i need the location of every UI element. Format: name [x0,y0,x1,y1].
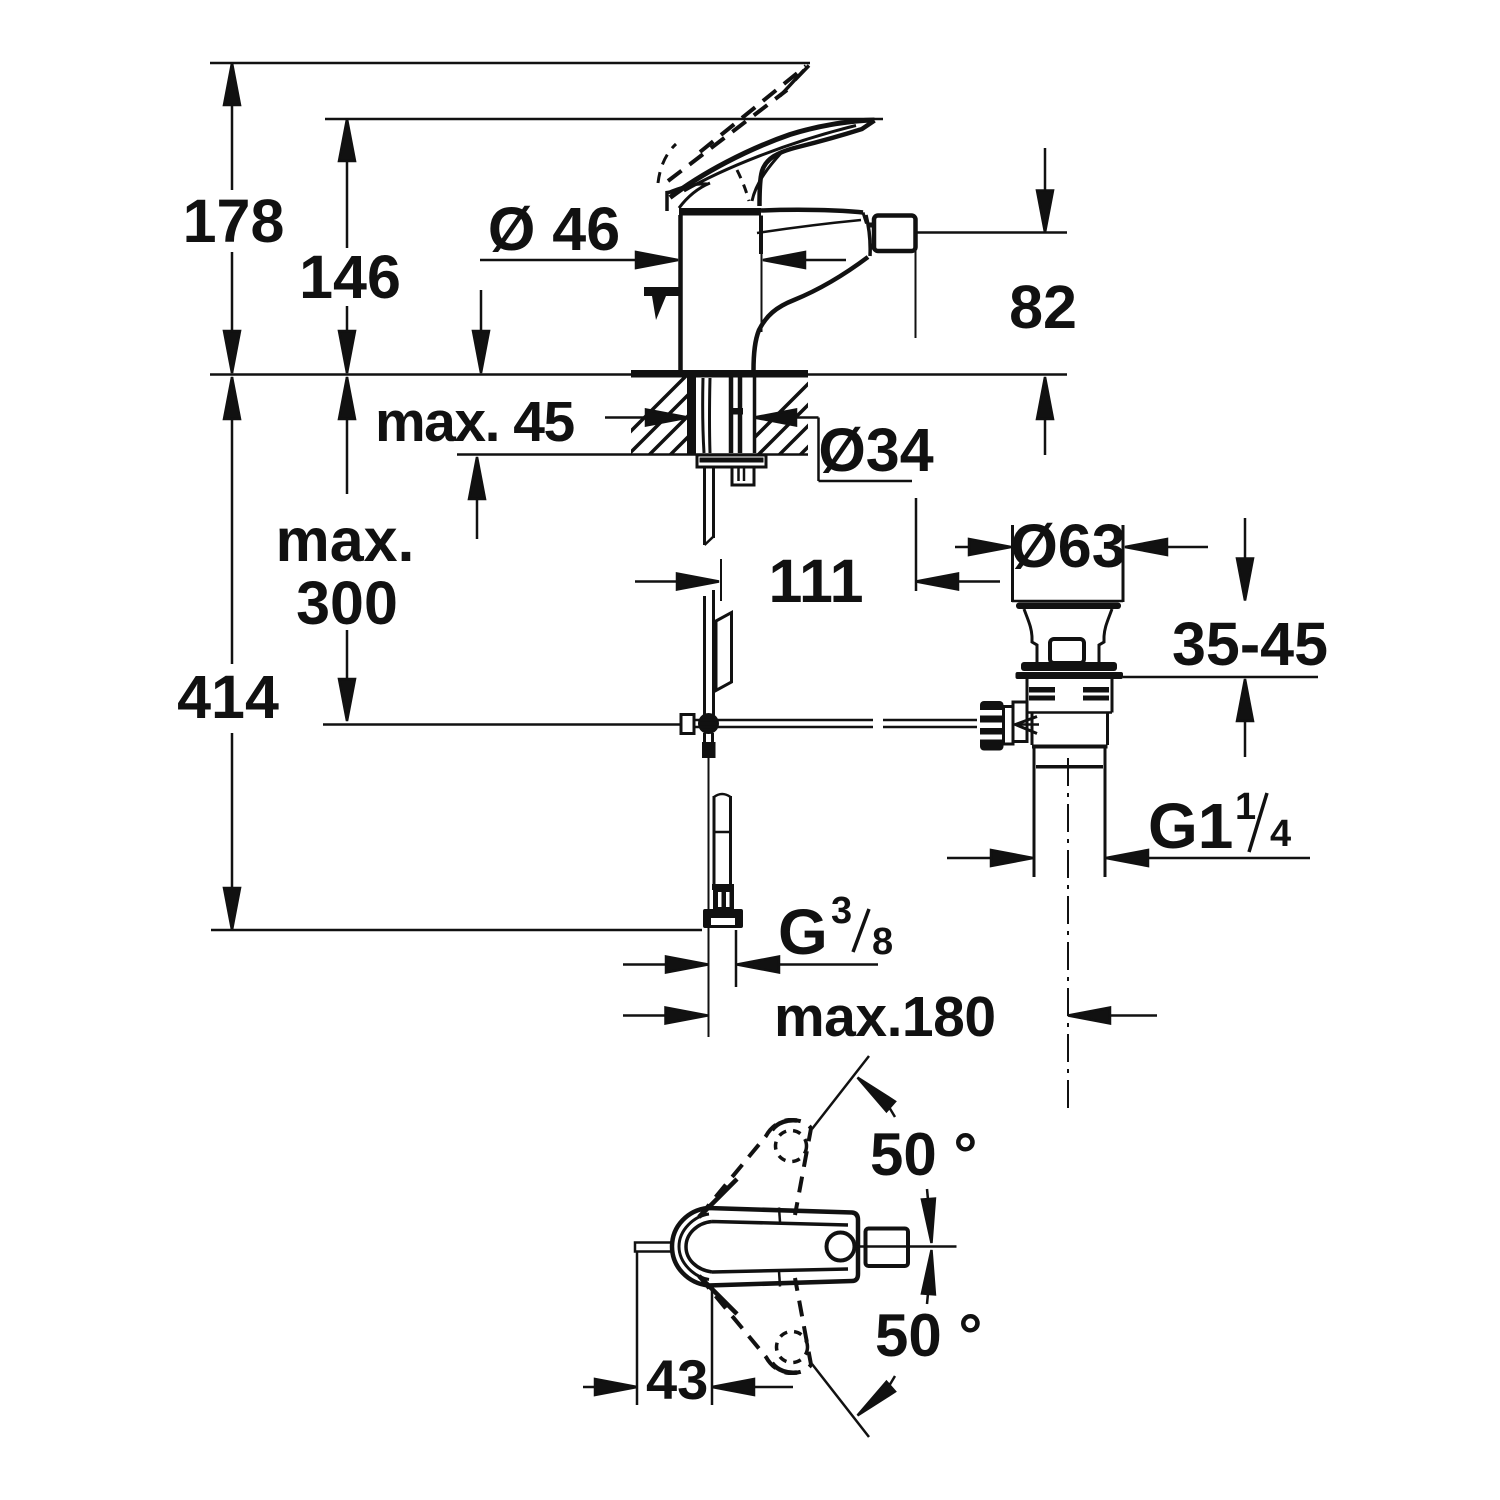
svg-text:1: 1 [1235,786,1256,828]
mounting hole left edge [687,377,696,454]
top view lower handle dashed [699,1276,811,1373]
max300 reference line [323,723,682,726]
deck line [210,373,1067,376]
drain centerline [1067,758,1069,1108]
svg-text:111: 111 [768,547,863,615]
top view body outline [672,1208,858,1286]
top reference line 178 [210,62,810,65]
svg-text:146: 146 [299,243,401,311]
drain side port [1013,702,1027,742]
top view aerator block [866,1229,909,1267]
faucet spout underside and body curve [754,257,869,371]
supply pipe middle segment [703,596,706,716]
dimension max180 arrows [623,1014,665,1017]
pipe below nut [735,930,738,987]
top view upper handle circle [776,1131,807,1162]
faucet cartridge ring band [679,208,761,216]
top view cartridge circle [827,1233,855,1261]
coupling collar [1004,707,1014,745]
D46 extension line [761,238,763,332]
faucet lever top edge [670,120,875,198]
faucet base bar [631,370,808,378]
top view body inner left arc [679,1214,709,1280]
faucet spout top edge [761,210,863,213]
drain tail pipe [1033,748,1036,877]
drain body windows [1029,687,1055,693]
top view pop-up tab [635,1243,673,1252]
extension line below aerator [915,251,917,338]
G3/8 nut [712,884,734,890]
D34 leader [817,418,820,482]
top view lever outline [686,1222,848,1273]
horizontal pop-up rod [694,719,873,722]
svg-text:max.: max. [275,506,414,574]
111 extension line left [720,559,722,601]
lower supply pipe [714,794,731,797]
svg-text:Ø34: Ø34 [818,416,933,484]
svg-text:414: 414 [177,663,279,731]
drain plug head [1011,525,1014,602]
rod seat cone [1016,717,1038,734]
mounting nut piece [732,467,754,485]
svg-text:8: 8 [872,921,893,963]
drain plug stem [1050,639,1084,663]
faucet body right edge [759,216,763,255]
35-45 reference line [1123,676,1318,679]
dimension 146 vertical line [346,119,349,248]
faucet lever neck inner curve [752,152,782,201]
svg-text:G1: G1 [1148,790,1233,862]
dimension 43 arrows [583,1386,596,1389]
bottom reference line 414 [211,929,702,932]
dimension D63 arrows [955,546,969,549]
dimension 43 extension lines [636,1252,639,1405]
svg-text:4: 4 [1270,813,1291,855]
deck hatching right [726,366,910,466]
svg-text:43: 43 [646,1348,708,1411]
svg-text:Ø63: Ø63 [1010,512,1125,580]
coupling nut knurled [980,701,1004,751]
deck hatching left [596,366,780,466]
faucet dome cap tab [667,191,680,211]
svg-text:50 °: 50 ° [870,1121,977,1188]
vertical rod below joint [703,733,706,743]
faucet spout tip face [866,215,870,256]
top view seam ticks [779,1208,780,1223]
dimension 82 [1044,148,1047,192]
top view centerline [855,1245,957,1248]
svg-text:82: 82 [1009,273,1077,341]
reference line 146 [325,118,883,121]
dimension D34 arrows [605,416,646,419]
svg-text:300: 300 [296,569,398,637]
svg-text:3: 3 [831,890,852,932]
pipe sleeve [716,613,732,691]
lower 50deg small arrow at centerline [927,1267,931,1304]
dimension 414 vertical line [231,377,234,664]
drain funnel [1024,609,1037,662]
svg-text:35-45: 35-45 [1172,610,1328,678]
dimension 178 vertical line [231,63,234,190]
111 extension line right [915,498,918,591]
svg-text:max. 45: max. 45 [375,390,574,454]
lower 50deg arc arrow [853,1382,895,1421]
dimension D46 arrows [480,259,636,262]
upper 50deg line [812,1056,869,1129]
upper 50deg arc arrow [853,1073,895,1112]
upper 50deg small arrow at centerline [927,1189,931,1226]
dimension G3/8 arrows [623,963,666,966]
drain lower body [1031,713,1034,746]
shank threaded rod [729,377,734,453]
82 top reference line [916,231,1067,234]
extension line through supply [708,758,710,1037]
faucet side knob flag [644,287,681,296]
faucet spout inner line [757,220,861,233]
max45 bottom line [457,453,808,456]
mounting flange below deck [697,455,766,467]
faucet lever underside [760,121,875,207]
lower 50deg line [812,1364,869,1437]
faucet dome curve [667,184,708,193]
drain seal flange [1021,662,1117,671]
svg-text:G: G [778,896,828,968]
supply pipe upper segment [703,467,706,545]
top view lower handle circle [777,1332,808,1363]
top view upper handle dashed [699,1120,811,1217]
svg-text:max.180: max.180 [774,985,996,1049]
faucet dashed raised lever [700,66,806,152]
arrow to deck at x481 [480,290,483,333]
faucet lever inner line [684,126,856,192]
dimension G1 1/4 arrows [947,857,991,860]
dimension max300 vertical line [346,377,349,494]
dimension 35-45 [1244,518,1247,560]
max45 up arrow [469,457,485,499]
rod end cap [681,715,694,734]
pop-up rod ball joint [698,713,719,734]
shank bent supply pipe in hole [703,378,704,453]
svg-text:178: 178 [183,187,285,255]
dimension 111 arrows [635,580,678,583]
mounting hole right edge [753,377,757,453]
svg-text:Ø 46: Ø 46 [488,195,620,263]
faucet body left edge [678,215,683,370]
drain body [1026,679,1029,713]
svg-text:50 °: 50 ° [875,1302,982,1369]
faucet aerator block [874,216,916,252]
